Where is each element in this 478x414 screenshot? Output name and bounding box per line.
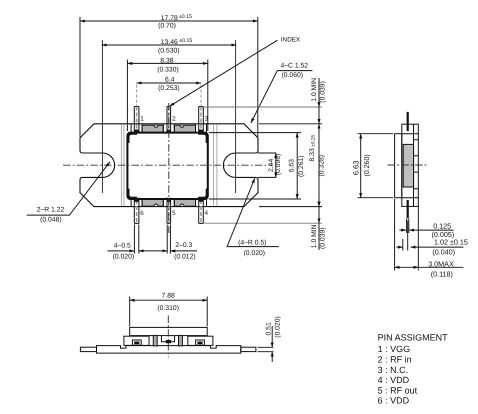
body step right [188,336,213,345]
dim 8.33 vertical [318,124,320,207]
svg-text:±0.15: ±0.15 [179,38,192,44]
svg-text:6.63: 6.63 [352,161,361,176]
side dim 6.63 [358,134,393,198]
side centerline [388,164,427,166]
svg-text:(0.012): (0.012) [174,254,196,261]
bottom view centerline [167,316,169,358]
svg-text:5 : RF out: 5 : RF out [378,385,418,395]
cap elevation [130,327,208,335]
svg-text:4–0.5: 4–0.5 [114,243,131,250]
dim 2.44 vertical [275,153,277,177]
side lead stack strip [414,124,419,206]
svg-text:1.02 ±0.15: 1.02 ±0.15 [434,237,468,246]
metallization bottom-left block [142,199,163,206]
svg-text:(0.096): (0.096) [275,154,282,176]
svg-text:8.33: 8.33 [309,148,316,161]
flange outline with chamfered ends and open slots [80,124,258,207]
svg-text:(0.310): (0.310) [157,305,179,312]
lead bars [153,335,157,346]
svg-text:(0.048): (0.048) [40,216,62,223]
svg-text:(0.530): (0.530) [158,47,180,54]
svg-text:(0.330): (0.330) [157,66,179,73]
dim 6.4 [137,83,201,106]
svg-text:(0.020): (0.020) [113,254,135,261]
svg-text:(0.020): (0.020) [244,250,266,257]
svg-text:(0.253): (0.253) [158,85,180,92]
rotated dimension texts right side [268,78,327,249]
slot centerlines / 13.46 extension lines [102,40,235,193]
svg-text:1: 1 [140,116,144,123]
svg-text:7.88: 7.88 [162,293,175,300]
svg-text:17.78: 17.78 [161,15,178,22]
dim 13.46 [102,44,237,46]
lead pin 2 [167,107,171,134]
svg-text:(4–R 0.5): (4–R 0.5) [238,239,266,246]
metallization top-left block [142,125,163,132]
side cap [402,124,419,206]
svg-text:2–0.3: 2–0.3 [175,242,192,249]
svg-text:(0.261): (0.261) [298,155,305,177]
svg-text:4–C 1.52: 4–C 1.52 [281,62,309,69]
4-C 1.52 label and leader [251,62,313,123]
svg-text:(0.328): (0.328) [319,155,326,177]
flange right end tab [241,347,256,351]
foot pad left [132,340,141,345]
foot pad right [196,340,205,345]
side top lead [407,112,409,131]
svg-text:1.0 MIN: 1.0 MIN [311,224,318,248]
svg-text:(0.039): (0.039) [320,227,327,249]
svg-text:(0.260): (0.260) [363,154,371,176]
dim 1.0 MIN top [318,78,320,124]
gray projection lines (cap edges) vertical [121,124,216,206]
lead pin 5 [167,198,171,225]
2-R 1.22 label and leader [27,162,110,224]
svg-text:2 : RF in: 2 : RF in [378,355,412,365]
svg-text:INDEX: INDEX [281,37,301,44]
svg-text:13.46: 13.46 [161,39,178,46]
center lead bracket [161,336,174,342]
flange left end tab [80,347,96,351]
svg-text:(0.020): (0.020) [275,316,282,338]
dim 1.0 MIN bottom [318,207,320,250]
svg-text:(0.118): (0.118) [431,269,453,278]
notch semicircles on metallization [154,125,158,127]
side ceramic gray [403,144,413,187]
svg-text:6.4: 6.4 [165,76,175,83]
lead pin 6 [134,198,139,225]
dim 7.88 [130,297,208,327]
side bottom lead [407,200,409,218]
svg-text:(0.039): (0.039) [320,81,327,103]
(4-R 0.5) label and leader [227,178,279,257]
lead pin 3 [199,107,204,134]
lead pad outlines bottom [131,199,206,206]
svg-text:±0.15: ±0.15 [179,14,192,20]
pin number labels [140,116,208,218]
body step left [124,336,149,345]
side dim 3.0MAX [395,199,464,271]
side flange [395,134,402,198]
4-0.5 / 2-0.3 lead width dims [108,225,198,254]
svg-text:6: 6 [140,210,144,217]
right-side extension lines [204,107,322,223]
lead pin 4 [199,198,204,225]
lead pin 1 [134,107,139,134]
side dim 0.125 lead thickness [399,219,453,233]
vertical centerline [168,103,170,233]
svg-text:2–R 1.22: 2–R 1.22 [37,207,65,214]
ceramic body [127,133,207,199]
svg-text:2: 2 [172,116,176,123]
svg-text:6.63: 6.63 [289,159,296,172]
dim 8.38 [127,60,207,132]
flange elevation profile [97,346,241,354]
svg-text:(0.060): (0.060) [282,72,304,79]
body corner accents [128,134,137,143]
dim 6.63 vertical [296,133,298,199]
svg-text:5: 5 [172,210,176,217]
svg-text:1 : VGG: 1 : VGG [378,344,411,354]
svg-text:PIN ASSIGMENT: PIN ASSIGMENT [378,333,449,343]
lead pad outlines top [131,124,206,132]
svg-text:(0.70): (0.70) [158,23,176,30]
dim 17.78 [80,17,258,137]
svg-text:4 : VDD: 4 : VDD [378,375,410,385]
metallization top-right block [174,125,195,132]
svg-text:4: 4 [205,210,209,217]
svg-text:8.38: 8.38 [160,57,173,64]
svg-text:3 : N.C.: 3 : N.C. [378,365,409,375]
svg-text:2.44: 2.44 [268,159,275,172]
svg-text:3.0MAX: 3.0MAX [428,260,454,269]
svg-text:6 : VDD: 6 : VDD [378,396,410,406]
svg-text:1.0 MIN: 1.0 MIN [311,78,318,102]
dim 0.51 [258,326,274,362]
metallization bottom-right block [174,199,195,206]
svg-text:0.51: 0.51 [266,322,273,335]
INDEX label and leader [170,37,301,107]
horizontal centerline [63,164,273,166]
side dim 1.02 [396,221,463,251]
svg-text:±0.25: ±0.25 [311,134,317,146]
svg-text:(0.040): (0.040) [432,247,455,256]
